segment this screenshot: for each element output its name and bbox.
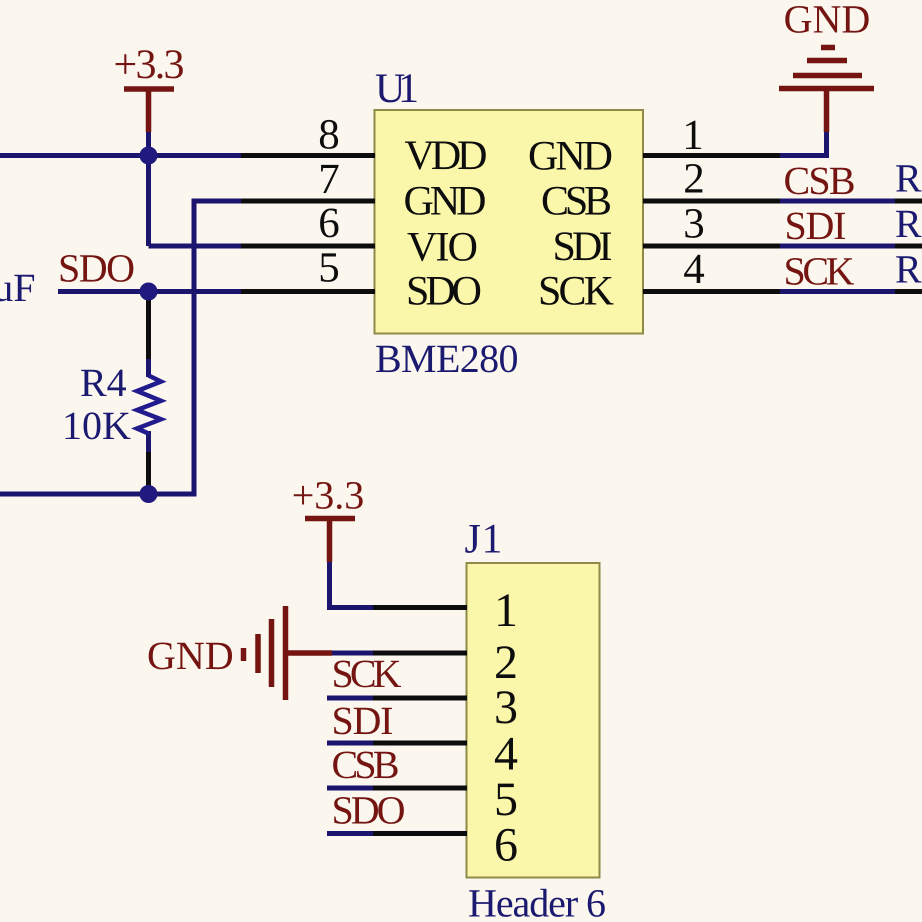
svg-text:4: 4 [683, 246, 705, 293]
svg-text:BME280: BME280 [375, 336, 519, 381]
svg-text:SCK: SCK [538, 269, 614, 315]
svg-text:SDO: SDO [406, 269, 482, 315]
svg-text:SDO: SDO [332, 788, 406, 833]
svg-text:SDI: SDI [332, 698, 394, 743]
svg-text:R: R [895, 247, 922, 292]
svg-text:GND: GND [147, 633, 234, 678]
svg-text:GND: GND [784, 0, 871, 42]
svg-text:3: 3 [494, 681, 518, 734]
svg-text:1: 1 [682, 112, 704, 159]
svg-text:R: R [895, 156, 922, 201]
svg-text:SDI: SDI [785, 203, 847, 248]
svg-text:VIO: VIO [407, 225, 478, 271]
svg-text:CSB: CSB [332, 742, 400, 787]
svg-text:CSB: CSB [541, 179, 612, 225]
svg-text:2: 2 [683, 156, 705, 203]
svg-text:6: 6 [494, 819, 518, 872]
svg-text:GND: GND [404, 179, 487, 225]
svg-text:CSB: CSB [784, 158, 856, 203]
svg-text:6: 6 [318, 200, 340, 247]
svg-text:SCK: SCK [784, 249, 855, 294]
svg-text:R4: R4 [80, 360, 127, 405]
svg-text:8: 8 [318, 112, 340, 159]
svg-text:R: R [895, 201, 922, 246]
svg-text:U1: U1 [375, 66, 419, 112]
svg-text:Header 6: Header 6 [468, 881, 606, 922]
svg-text:SDI: SDI [553, 224, 613, 270]
svg-text:10K: 10K [62, 403, 131, 448]
svg-text:+3.3: +3.3 [292, 473, 365, 518]
svg-text:7: 7 [318, 156, 340, 203]
svg-text:SDO: SDO [58, 246, 135, 291]
svg-text:VDD: VDD [405, 133, 488, 179]
svg-text:SCK: SCK [332, 651, 402, 696]
svg-text:GND: GND [528, 134, 613, 180]
svg-text:1: 1 [494, 584, 518, 637]
svg-text:J1: J1 [465, 517, 503, 563]
svg-text:5: 5 [318, 245, 340, 292]
svg-text:+3.3: +3.3 [114, 42, 185, 88]
svg-text:0.1uF: 0.1uF [0, 265, 36, 310]
svg-text:3: 3 [683, 201, 705, 248]
